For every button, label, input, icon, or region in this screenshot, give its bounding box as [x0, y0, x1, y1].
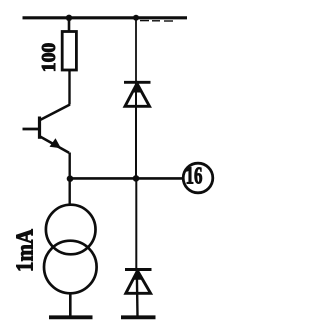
resistor R 100	[62, 32, 76, 71]
svg-text:16: 16	[186, 164, 203, 190]
junction node B (rail / diode branch)	[133, 15, 139, 21]
junction node C (emitter / node row / source)	[67, 175, 74, 182]
wire: emitter down to node row	[68, 153, 70, 207]
svg-text:100: 100	[38, 43, 60, 73]
wire: resistor bottom to collector	[68, 70, 70, 105]
junction node A (rail / resistor)	[66, 15, 72, 21]
svg-text:1mA: 1mA	[13, 228, 39, 272]
wire: node row down through diode D2 to ground bar	[135, 178, 137, 269]
node terminal circle 16	[183, 163, 213, 193]
current source I1 1mA (two overlapping circles)	[44, 205, 97, 294]
wire: top supply rail	[23, 18, 188, 21]
wire: rail down through diode D1 to node row	[135, 18, 137, 82]
transistor Q1 (NPN)	[23, 105, 71, 153]
diode D2 (cathode bar up)	[125, 270, 152, 294]
ground terminal bar (right)	[121, 315, 156, 319]
diode D1 (cathode bar up)	[124, 82, 151, 106]
wire: current source to ground bar	[69, 293, 72, 316]
wire: rail to resistor top	[68, 18, 71, 32]
junction node D (node row / diode branch)	[133, 175, 140, 182]
ground terminal bar (left)	[49, 315, 93, 319]
wire: node row horizontal to terminal 16	[70, 177, 184, 180]
